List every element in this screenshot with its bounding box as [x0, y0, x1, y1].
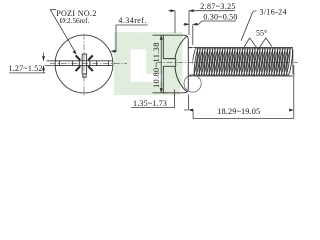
svg-text:55°: 55°	[256, 28, 267, 37]
head crown arc lower	[175, 66, 187, 92]
arrowheads 0.30~0.50	[184, 23, 189, 26]
svg-text:1.27~1.52: 1.27~1.52	[9, 64, 43, 73]
horizontal centerline (front view)	[50, 62, 127, 64]
pozi recess bottom box	[83, 74, 86, 77]
pozi diagonal tick SE	[88, 66, 93, 71]
slot lines (front view)	[56, 61, 113, 66]
svg-text:4.34ref.: 4.34ref.	[118, 16, 146, 25]
slot (side view)	[163, 59, 175, 67]
watermark logo right block	[146, 32, 182, 74]
watermark logo bottom band	[114, 82, 180, 95]
thread callout 3/16-24 leader	[241, 11, 256, 41]
head outline (side view)	[163, 35, 188, 93]
dimension 18.29~19.05	[184, 65, 294, 118]
arrowheads 10.80~11.38	[160, 35, 163, 40]
thread profile V detail	[243, 38, 272, 50]
pozi diagonal tick NE	[88, 55, 93, 60]
underhead fillet detail circle	[184, 75, 201, 92]
svg-text:0.30~0.50: 0.30~0.50	[203, 13, 237, 22]
pozi diagonal tick SW	[76, 66, 81, 71]
arrowhead 4.34ref	[111, 50, 116, 53]
head left face (interrupted by slot)	[162, 35, 164, 93]
thread crest bottom line	[194, 75, 293, 77]
thread crest top line	[194, 47, 293, 49]
dimension 4.34ref leader	[112, 25, 148, 51]
svg-text:3/16-24: 3/16-24	[260, 8, 287, 17]
svg-text:2.87~3.25: 2.87~3.25	[200, 2, 235, 11]
dimension 1.27~1.52	[9, 53, 58, 73]
slot end caps	[60, 61, 109, 66]
pozi recess wing ticks	[73, 61, 97, 66]
dimension 10.80~11.38	[153, 35, 167, 93]
leader arrowhead POZI	[73, 50, 77, 54]
head outline circle (front view)	[55, 35, 113, 93]
pozi diagonal tick NW	[76, 55, 81, 60]
dimension 0.30~0.50	[184, 21, 236, 45]
watermark logo left band	[114, 32, 131, 95]
dimension 2.87~3.25	[169, 11, 235, 35]
unthreaded shank	[188, 48, 193, 76]
head crown arc upper	[175, 36, 187, 58]
leader line POZI NO.2	[50, 10, 75, 53]
pozi recess vertical bar	[82, 54, 86, 74]
vertical centerline (front view)	[83, 34, 85, 97]
svg-text:1.35~1.73: 1.35~1.73	[133, 99, 167, 108]
arrowheads 2.87~3.25	[170, 9, 175, 12]
thread coil texture	[191, 48, 294, 76]
side view axis centerline	[156, 61, 298, 63]
svg-text:Ø:2.56ref.: Ø:2.56ref.	[60, 16, 90, 25]
arrowheads 1.27~1.52	[42, 56, 45, 61]
watermark logo top band	[114, 32, 183, 49]
svg-text:10.80~11.38: 10.80~11.38	[152, 42, 161, 88]
watermark logo right-bottom connector	[162, 74, 182, 83]
svg-text:18.29~19.05: 18.29~19.05	[217, 107, 260, 116]
dimension 1.35~1.73	[131, 89, 174, 107]
arrowheads 18.29~19.05	[188, 109, 193, 112]
thread end	[292, 50, 294, 75]
